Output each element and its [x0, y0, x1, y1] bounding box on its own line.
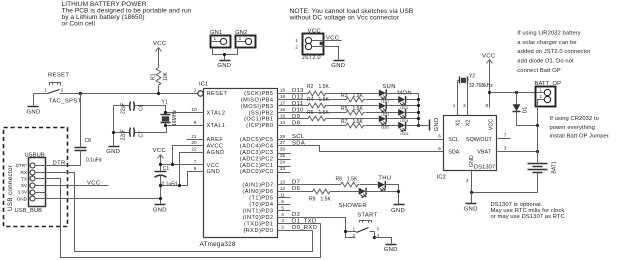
IC1 unconnected pin stubs: [187, 140, 291, 211]
svg-text:GND: GND: [464, 206, 478, 212]
svg-text:X1: X1: [455, 120, 461, 127]
svg-text:C8: C8: [85, 138, 92, 144]
svg-text:DTR*: DTR*: [16, 163, 28, 168]
capacitor C1 0.1uFd: [155, 166, 178, 204]
IC1 left pin names: [207, 91, 228, 175]
power VCC symbol above R1: [153, 41, 167, 68]
node junction AGND-GND: [178, 184, 181, 187]
svg-text:16: 16: [280, 107, 286, 112]
svg-text:1.5K: 1.5K: [347, 176, 358, 182]
svg-text:GND: GND: [391, 208, 405, 214]
wire XTAL2 row: [166, 112, 204, 114]
svg-text:LED3: LED3: [381, 113, 389, 117]
LED4 MON row D10: [398, 109, 408, 123]
svg-text:6: 6: [438, 133, 441, 138]
svg-text:AVCC: AVCC: [207, 143, 224, 149]
svg-text:26: 26: [280, 147, 286, 152]
wire R2 to LED SUN1: [327, 93, 379, 95]
svg-text:22pF: 22pF: [121, 129, 127, 140]
svg-text:22: 22: [191, 147, 197, 152]
svg-text:add diode D1. Do not: add diode D1. Do not: [517, 59, 574, 65]
resistor R9 1.5K: [309, 189, 331, 203]
svg-text:or may use DS1307 as RTC: or may use DS1307 as RTC: [491, 214, 565, 220]
svg-text:1.5K: 1.5K: [319, 84, 330, 90]
pin inversion bubble IC1 RESET: [198, 91, 203, 96]
switch S1 RESET TAC_SPST: [34, 73, 82, 105]
svg-text:VCC: VCC: [153, 41, 167, 47]
svg-text:7: 7: [504, 133, 507, 138]
svg-text:THU: THU: [378, 175, 391, 181]
svg-text:7: 7: [194, 160, 197, 165]
svg-text:GND: GND: [17, 196, 28, 201]
svg-text:SQW/OUT: SQW/OUT: [466, 137, 492, 143]
svg-text:(INT1)PD3: (INT1)PD3: [243, 209, 274, 215]
wire D1_TXD row: [278, 223, 321, 225]
wire SDA to DS1307: [278, 146, 444, 152]
svg-text:(RXD)PD0: (RXD)PD0: [243, 228, 273, 234]
svg-text:R6: R6: [307, 110, 314, 116]
svg-text:32.768kHz: 32.768kHz: [469, 83, 493, 89]
svg-text:XTAL2: XTAL2: [207, 110, 226, 116]
svg-text:VCC: VCC: [488, 119, 494, 130]
svg-text:GND: GND: [106, 149, 120, 155]
svg-text:(ADC3)PC3: (ADC3)PC3: [240, 150, 274, 156]
svg-text:8: 8: [194, 166, 197, 171]
wire down to ground: [471, 193, 473, 204]
wire R9 to LED SHOWER: [331, 191, 359, 193]
svg-text:C7: C7: [139, 131, 145, 138]
svg-text:(SS)PB2: (SS)PB2: [249, 110, 274, 116]
connector USBUB header: [15, 153, 46, 215]
svg-text:2: 2: [539, 94, 542, 99]
wire D7 row: [278, 184, 340, 186]
note text: CR2032 note: [550, 116, 611, 140]
svg-text:START: START: [357, 212, 377, 218]
wire START to ground: [375, 238, 392, 244]
svg-text:2: 2: [281, 225, 284, 230]
svg-text:R8: R8: [336, 176, 343, 182]
svg-text:BAT1: BAT1: [551, 161, 557, 173]
svg-text:(ADC0)PC0: (ADC0)PC0: [240, 169, 274, 175]
svg-text:13: 13: [280, 179, 286, 184]
svg-text:DS1307: DS1307: [474, 165, 495, 171]
svg-text:3: 3: [376, 227, 379, 232]
wire LED2 to bus: [407, 99, 419, 101]
svg-text:(MOSI)PB3: (MOSI)PB3: [241, 104, 274, 110]
svg-text:IC2: IC2: [437, 175, 446, 181]
svg-text:GND: GND: [384, 247, 398, 253]
IC1 right pin names: [240, 91, 274, 234]
svg-text:(AIN1)PD7: (AIN1)PD7: [242, 183, 273, 189]
svg-text:(MISO)PB4: (MISO)PB4: [241, 97, 274, 103]
wire Y2 right leg to X2: [467, 81, 469, 116]
svg-text:1: 1: [539, 88, 542, 93]
resistor R5 1.5K: [341, 106, 365, 115]
svg-text:4: 4: [281, 212, 284, 217]
svg-text:1: 1: [453, 103, 456, 108]
svg-text:connect Batt OP: connect Batt OP: [517, 68, 560, 74]
svg-text:JST2.0: JST2.0: [302, 55, 321, 61]
wire Y2 left leg to X1: [457, 81, 459, 116]
connector GN2: [235, 30, 255, 55]
LED7 SHOWER: [359, 188, 366, 198]
wire R4 to LED SUN2: [327, 105, 379, 107]
svg-text:22pF: 22pF: [121, 103, 127, 114]
svg-text:5: 5: [281, 205, 284, 210]
svg-text:RX: RX: [20, 170, 27, 175]
op-amp IC1 ATmega328 body: [199, 82, 278, 248]
connector JST2.0 VCC input: [295, 34, 323, 62]
svg-text:(ADC5)PC5: (ADC5)PC5: [240, 137, 274, 143]
ground under reset switch: [27, 107, 41, 116]
IC2 DS1307 body: [437, 116, 497, 181]
node junction VCC branch: [488, 91, 491, 94]
svg-text:install Batt OP Jumper.: install Batt OP Jumper.: [550, 134, 611, 140]
wire bus to ground: [419, 125, 429, 127]
svg-text:LED1: LED1: [381, 100, 389, 104]
svg-text:6: 6: [281, 199, 284, 204]
svg-text:(SCK)PB5: (SCK)PB5: [244, 91, 273, 97]
crystal Y2 32.768kHz: [458, 73, 494, 89]
ground under C1: [153, 205, 167, 214]
capacitor C8 0.1uFd: [75, 94, 102, 166]
svg-text:R2: R2: [307, 84, 314, 90]
svg-text:XTAL1: XTAL1: [207, 123, 226, 129]
node junction VBAT: [536, 150, 539, 153]
svg-text:C6: C6: [139, 104, 145, 111]
node junction THU SHOWER: [397, 190, 400, 193]
wire LED1 to bus: [387, 93, 419, 95]
svg-text:GND: GND: [434, 117, 440, 131]
svg-text:R9: R9: [309, 197, 316, 203]
svg-text:May use RTC milis for clock: May use RTC milis for clock: [491, 208, 565, 214]
svg-text:9: 9: [194, 120, 197, 125]
connector GN1: [210, 30, 231, 55]
svg-text:4: 4: [466, 178, 469, 183]
wire 5V VCC stub: [35, 185, 109, 187]
LED1 SUN row D13: [379, 89, 389, 103]
svg-text:14: 14: [280, 120, 286, 125]
svg-text:RESET: RESET: [207, 91, 228, 97]
dashed box USB connector: [4, 128, 68, 227]
wire TX to bottom run: [35, 179, 321, 258]
svg-text:If using LIR2032 battery: If using LIR2032 battery: [517, 30, 580, 36]
svg-text:27: 27: [280, 140, 286, 145]
note text: lithium battery power: [62, 1, 192, 28]
svg-text:LED6: LED6: [400, 132, 408, 136]
wire GN1 GN2 join: [213, 55, 238, 60]
svg-text:R3: R3: [341, 93, 348, 99]
svg-text:power everything: power everything: [550, 125, 595, 131]
svg-text:If using CR2032 to: If using CR2032 to: [550, 116, 599, 122]
wire JST pin1 VCC stub: [312, 40, 342, 42]
node junctions on bus: [417, 98, 420, 127]
IC1 right pin numbers: [280, 88, 286, 230]
wire R3 to LED MON1: [366, 99, 399, 101]
LED2 MON row D12: [398, 96, 408, 110]
wire THU to ground column: [386, 185, 399, 205]
svg-text:28: 28: [280, 134, 286, 139]
svg-text:R7: R7: [341, 119, 348, 125]
svg-text:0.1uFd: 0.1uFd: [86, 158, 102, 164]
svg-text:without DC voltage on Vcc conn: without DC voltage on Vcc connector: [289, 14, 400, 21]
wire D10 row: [278, 112, 345, 114]
svg-text:AREF: AREF: [207, 137, 224, 143]
wire battery bottom to IC2 gnd: [472, 192, 538, 194]
switch S2 START: [346, 212, 380, 237]
svg-text:19: 19: [280, 88, 286, 93]
svg-text:USB_BUB: USB_BUB: [15, 208, 43, 214]
wire IC2 GND pin down: [471, 170, 473, 193]
svg-text:GND: GND: [331, 63, 345, 69]
svg-text:1: 1: [295, 38, 298, 43]
svg-text:(T0)PD4: (T0)PD4: [249, 202, 273, 208]
note text: DS1307 optional note: [491, 202, 565, 220]
capacitor C6 22pF: [114, 102, 166, 115]
svg-text:X2: X2: [466, 120, 472, 127]
battery BAT1: [528, 126, 558, 193]
svg-text:LED2: LED2: [400, 106, 408, 110]
svg-text:GND: GND: [469, 155, 475, 167]
wire D1 to battery column: [517, 125, 538, 127]
resistor R3 1.5K: [341, 93, 365, 102]
resistor R7 1.5K: [341, 119, 365, 128]
node junction START right: [373, 236, 376, 239]
wire JST pin2 to GND: [312, 47, 339, 60]
svg-text:10: 10: [191, 107, 197, 112]
wire D11 row: [278, 105, 307, 107]
resistor R1 10K: [151, 68, 169, 94]
svg-text:17: 17: [280, 101, 286, 106]
note text: LIR2032 note: [517, 30, 590, 74]
LED6 MON row D8: [398, 122, 408, 136]
svg-text:(ADC1)PC1: (ADC1)PC1: [240, 163, 274, 169]
wire VCC row to IC1 pin7: [161, 164, 204, 166]
svg-text:VCC: VCC: [207, 163, 220, 169]
svg-text:GND: GND: [207, 169, 221, 175]
wire D13 row: [278, 93, 307, 95]
resistor R2 1.5K: [307, 84, 330, 96]
svg-text:TAC_SPST: TAC_SPST: [49, 98, 82, 104]
svg-text:1.5K: 1.5K: [319, 97, 330, 103]
diode D1: [513, 93, 529, 126]
svg-text:or Coin cell: or Coin cell: [62, 20, 96, 27]
wire D9 row: [278, 118, 307, 120]
connector BATT_OP jumper: [535, 81, 562, 125]
svg-text:2: 2: [295, 45, 298, 50]
svg-text:GND: GND: [153, 208, 167, 214]
wire VBAT to battery column: [498, 151, 538, 153]
wire reset row to IC1 pin1: [81, 93, 198, 95]
svg-text:1: 1: [239, 36, 242, 41]
wire LED cathode bus: [418, 94, 420, 126]
wire VCC row to BATT_OP: [490, 92, 545, 94]
wire D8 row: [278, 125, 345, 127]
resistor R6 1.5K: [307, 110, 330, 121]
crystal Y1 16MHz: [161, 100, 179, 126]
svg-text:1.5K: 1.5K: [319, 110, 330, 116]
ground under THU SHOWER: [391, 205, 405, 214]
capacitor C7 22pF: [114, 126, 167, 141]
svg-text:a solar charger can be: a solar charger can be: [517, 40, 576, 46]
wire R7 to LED MON3: [366, 125, 399, 127]
svg-text:LED4: LED4: [400, 119, 408, 123]
USBUB pin labels: [16, 163, 28, 201]
LED8 THU: [378, 181, 385, 191]
svg-text:VBAT: VBAT: [477, 150, 491, 156]
svg-text:1: 1: [353, 227, 356, 232]
svg-text:5V: 5V: [21, 183, 28, 188]
svg-text:1.5K: 1.5K: [353, 119, 364, 125]
node junction ground node: [159, 197, 162, 200]
svg-text:3: 3: [281, 218, 284, 223]
node junction D1 top: [515, 91, 518, 94]
wire SHOWER to ground column: [367, 191, 399, 193]
wire LED6 to bus: [407, 125, 419, 127]
wire D0_RXD row: [278, 230, 313, 232]
wire D6 row: [278, 191, 312, 193]
svg-text:GND: GND: [217, 63, 231, 69]
svg-text:VCC: VCC: [153, 148, 167, 154]
svg-text:0.1uFd: 0.1uFd: [162, 181, 178, 187]
svg-text:1: 1: [214, 36, 217, 41]
svg-text:24: 24: [280, 160, 286, 165]
svg-text:5: 5: [438, 146, 441, 151]
svg-text:1.5K: 1.5K: [353, 106, 364, 112]
wire caps to GND: [113, 106, 115, 146]
svg-text:11: 11: [280, 192, 285, 197]
wire RX to bottom run: [35, 173, 313, 252]
ground under JST: [331, 61, 345, 70]
note text: USB sketch note: [289, 8, 414, 22]
ground under GN1 GN2: [217, 61, 231, 70]
svg-text:3.3V: 3.3V: [17, 190, 28, 195]
wire LED5 to bus: [387, 118, 419, 120]
svg-text:R4: R4: [307, 97, 314, 103]
IC2 pin numbers: [438, 103, 507, 183]
svg-text:1.5K: 1.5K: [353, 93, 364, 99]
svg-text:20: 20: [191, 140, 197, 145]
wire R8 to LED THU: [360, 184, 378, 186]
IC1 left pin numbers: [191, 88, 197, 171]
svg-text:R1: R1: [151, 73, 157, 80]
svg-text:(TXD)PD1: (TXD)PD1: [244, 221, 273, 227]
svg-text:(OC1)PB1: (OC1)PB1: [244, 117, 273, 123]
svg-text:(ICP)PB0: (ICP)PB0: [246, 123, 273, 129]
node junction reset-C8: [79, 92, 82, 95]
node junction IC2 ground: [470, 191, 473, 194]
wire GND pin8: [161, 172, 204, 186]
wire USBUB GND to ground node: [35, 198, 161, 200]
svg-text:(AIN0)PD6: (AIN0)PD6: [242, 189, 273, 195]
wire SCL to DS1307: [278, 139, 444, 141]
svg-text:12: 12: [280, 186, 286, 191]
svg-text:SUN: SUN: [382, 84, 395, 90]
wire XTAL1 row: [166, 125, 204, 127]
node junction START left: [344, 230, 347, 233]
svg-text:SHOWER: SHOWER: [339, 203, 367, 209]
svg-text:VCC: VCC: [482, 54, 496, 60]
svg-text:R5: R5: [341, 106, 348, 112]
svg-text:8: 8: [485, 103, 488, 108]
power VCC symbol above C1: [153, 148, 167, 171]
svg-text:(ADC2)PC2: (ADC2)PC2: [240, 156, 274, 162]
svg-text:(INT0)PD2: (INT0)PD2: [243, 215, 274, 221]
wire LED3 to bus: [387, 105, 419, 107]
node junction VCC-C1: [159, 163, 162, 166]
node junction battery top: [536, 124, 539, 127]
svg-text:LED5: LED5: [381, 125, 389, 129]
ground under IC2: [464, 204, 478, 213]
IC1 net labels right: [292, 88, 317, 231]
svg-text:TX: TX: [21, 176, 28, 181]
svg-text:(T1)PD5: (T1)PD5: [249, 196, 273, 202]
svg-text:D1: D1: [523, 107, 529, 114]
svg-text:SDA: SDA: [448, 150, 459, 156]
svg-text:added on JST2.0 connector: added on JST2.0 connector: [517, 49, 590, 55]
svg-text:(ADC4)PC4: (ADC4)PC4: [240, 143, 274, 149]
svg-text:2: 2: [463, 103, 466, 108]
LED5 SUN row D9: [379, 115, 389, 129]
svg-text:ATmega328: ATmega328: [200, 241, 236, 248]
svg-text:C1: C1: [163, 166, 170, 172]
ground rotated at LED bus: [430, 117, 440, 131]
svg-text:1.5K: 1.5K: [321, 197, 332, 203]
svg-text:GND: GND: [27, 110, 41, 116]
svg-text:USB connector: USB connector: [7, 165, 14, 211]
node junction crystal top: [164, 111, 167, 114]
resistor R8 1.5K: [336, 176, 360, 187]
svg-text:21: 21: [191, 134, 197, 139]
wire R5 to LED MON2: [366, 112, 399, 114]
wire LED4 to bus: [407, 112, 419, 114]
IC2 pin names: [448, 119, 494, 167]
node junction GN ground: [223, 53, 226, 56]
node junction AVCC-VCC: [171, 163, 174, 166]
svg-text:10K: 10K: [163, 71, 169, 81]
wire R6 to LED SUN3: [327, 118, 379, 120]
resistor R4 1.5K: [307, 97, 330, 108]
power VCC symbol above DS1307: [482, 54, 496, 108]
svg-text:DS1307 is optional.: DS1307 is optional.: [491, 202, 543, 208]
node junction crystal bottom: [164, 124, 167, 127]
LED3 SUN row D11: [379, 102, 389, 116]
svg-text:IC1: IC1: [199, 82, 208, 88]
wire 3.3V stub: [35, 192, 46, 194]
svg-text:3: 3: [504, 145, 507, 150]
svg-text:2: 2: [353, 233, 356, 238]
ground under C6 C7: [106, 147, 120, 155]
node junction R1-reset: [157, 92, 160, 95]
wire AVCC branch: [173, 146, 204, 165]
svg-text:Y1: Y1: [162, 100, 168, 106]
wire AGND down: [180, 153, 204, 186]
svg-text:SCL: SCL: [448, 137, 459, 143]
svg-text:2: 2: [61, 88, 64, 93]
wire D2 to START: [278, 218, 346, 232]
svg-text:18: 18: [280, 94, 286, 99]
wire DTR to C8: [35, 165, 81, 167]
wire D12 row: [278, 99, 345, 101]
svg-text:AGND: AGND: [207, 150, 225, 156]
wire reset to GND: [33, 94, 35, 106]
wire SQW/OUT stub: [498, 138, 511, 140]
ground under START: [384, 245, 398, 254]
node junction C6 C7: [112, 131, 115, 134]
svg-text:RESET: RESET: [48, 73, 69, 79]
svg-text:15: 15: [280, 114, 286, 119]
svg-text:Y2: Y2: [469, 73, 475, 79]
